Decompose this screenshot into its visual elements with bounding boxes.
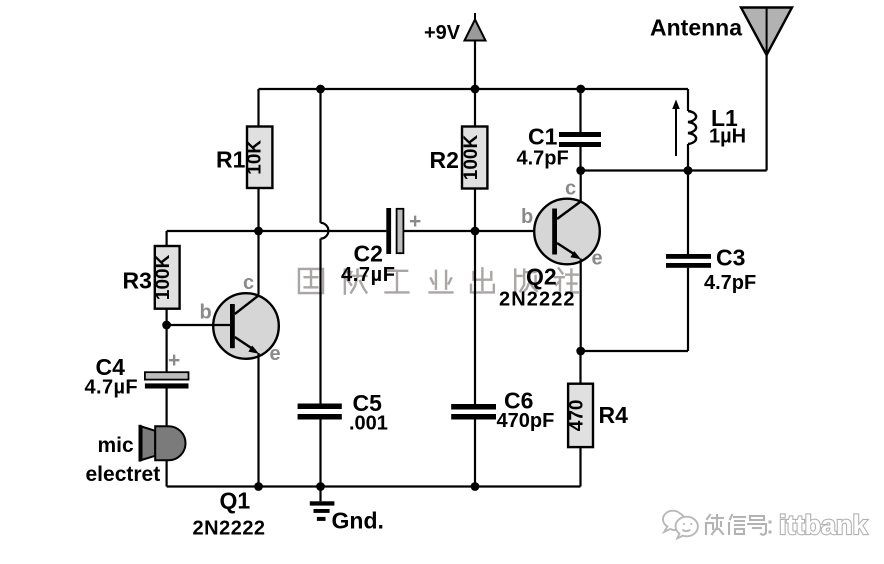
wire: top supply rail	[259, 88, 689, 90]
junction: L1/antenna node	[684, 166, 693, 175]
svg-text:e: e	[592, 248, 603, 270]
svg-text:470pF: 470pF	[497, 410, 555, 432]
svg-text:.001: .001	[349, 413, 388, 435]
resistor R3	[155, 231, 180, 325]
svg-text:470: 470	[567, 400, 588, 432]
junction: R1/R3 base node	[254, 227, 263, 236]
inductor L1	[688, 89, 696, 171]
watermark wechat icon	[663, 511, 698, 539]
wire: +9V stub	[474, 41, 476, 89]
junction: R3/C4 node	[162, 321, 171, 330]
junction: ground rail/C5	[316, 482, 325, 491]
svg-text:Q1: Q1	[220, 488, 251, 514]
transistor Q2	[534, 199, 600, 265]
microphone (electret)	[140, 425, 186, 462]
wire: antenna lead	[765, 55, 767, 171]
svg-text:2N2222: 2N2222	[499, 289, 576, 311]
wire: mic bottom lead	[166, 460, 168, 486]
svg-text:Antenna: Antenna	[650, 15, 742, 41]
watermark row: 国防工业出版社	[299, 268, 578, 293]
capacitor C3	[666, 171, 711, 352]
svg-text:4.7µF: 4.7µF	[85, 377, 139, 399]
junction: Q2 emitter/R4 node	[576, 347, 585, 356]
junction: rail/+9V	[471, 85, 480, 94]
svg-text:100K: 100K	[153, 254, 174, 300]
svg-text:Gnd.: Gnd.	[332, 508, 384, 534]
junction: R2/C2 base node	[471, 227, 480, 236]
svg-text:C2: C2	[354, 241, 383, 267]
svg-text:c: c	[565, 178, 576, 200]
ground symbol	[310, 487, 335, 521]
svg-text:ittbank: ittbank	[779, 510, 868, 540]
wire: base rail left (R3 top to C2)	[167, 230, 387, 232]
svg-text:R2: R2	[430, 147, 459, 173]
svg-text:100K: 100K	[461, 135, 482, 181]
capacitor C2 (electrolytic)	[386, 208, 403, 254]
wire: Q2 emitter lead	[580, 259, 582, 352]
svg-text:b: b	[200, 302, 212, 324]
svg-text:+: +	[168, 349, 180, 372]
svg-text:R4: R4	[599, 402, 629, 428]
junction: ground rail/C6	[471, 482, 480, 491]
antenna	[741, 8, 792, 56]
capacitor C4 (electrolytic)	[145, 325, 189, 426]
svg-text:C3: C3	[716, 245, 745, 271]
svg-text:4.7µF: 4.7µF	[341, 264, 396, 286]
svg-text:b: b	[521, 206, 533, 228]
resistor R4	[568, 351, 593, 487]
svg-text:2N2222: 2N2222	[193, 518, 266, 540]
junction: C1/Q2 collector node	[576, 166, 585, 175]
wire: Q1 collector lead	[257, 231, 259, 295]
wire: Q1 emitter lead	[257, 353, 259, 487]
svg-text:R3: R3	[123, 268, 152, 294]
svg-text:mic: mic	[98, 434, 135, 457]
wire: C3/R4 feedback rail	[581, 350, 688, 352]
svg-text:Q2: Q2	[526, 264, 557, 290]
junction: ground rail/Q1 emitter	[254, 482, 263, 491]
wire: tank rail (C1/L1 bottom)	[581, 169, 767, 171]
power +9V symbol	[465, 13, 486, 41]
watermark text 微信号:ittbank	[706, 515, 770, 535]
wire: Q1 base lead	[167, 324, 230, 326]
svg-text:e: e	[270, 343, 281, 365]
svg-text:+9V: +9V	[424, 22, 461, 44]
svg-text:C1: C1	[528, 124, 558, 150]
resistor R1	[247, 89, 272, 231]
capacitor C5	[298, 404, 342, 487]
svg-text:4.7pF: 4.7pF	[704, 272, 756, 294]
wire: C2 to base rail right	[403, 230, 552, 232]
svg-text:1µH: 1µH	[709, 126, 746, 148]
capacitor C1	[559, 89, 601, 171]
svg-text:c: c	[243, 272, 254, 294]
resistor R2	[462, 89, 487, 231]
tuning arrow of L1	[672, 100, 680, 157]
svg-text:+: +	[409, 210, 421, 233]
wire: oscillator vertical with hop over base rail	[321, 89, 329, 404]
svg-text:10K: 10K	[245, 140, 266, 175]
junction: rail/oscillator	[316, 85, 325, 94]
wire: ground rail	[167, 485, 581, 487]
capacitor C6	[451, 231, 496, 487]
svg-text:4.7pF: 4.7pF	[517, 148, 569, 170]
transistor Q1	[213, 293, 279, 359]
wire: Q2 collector lead	[580, 171, 582, 202]
svg-text:electret: electret	[86, 463, 161, 486]
svg-text:R1: R1	[216, 147, 246, 173]
junction: rail/C1	[576, 85, 585, 94]
